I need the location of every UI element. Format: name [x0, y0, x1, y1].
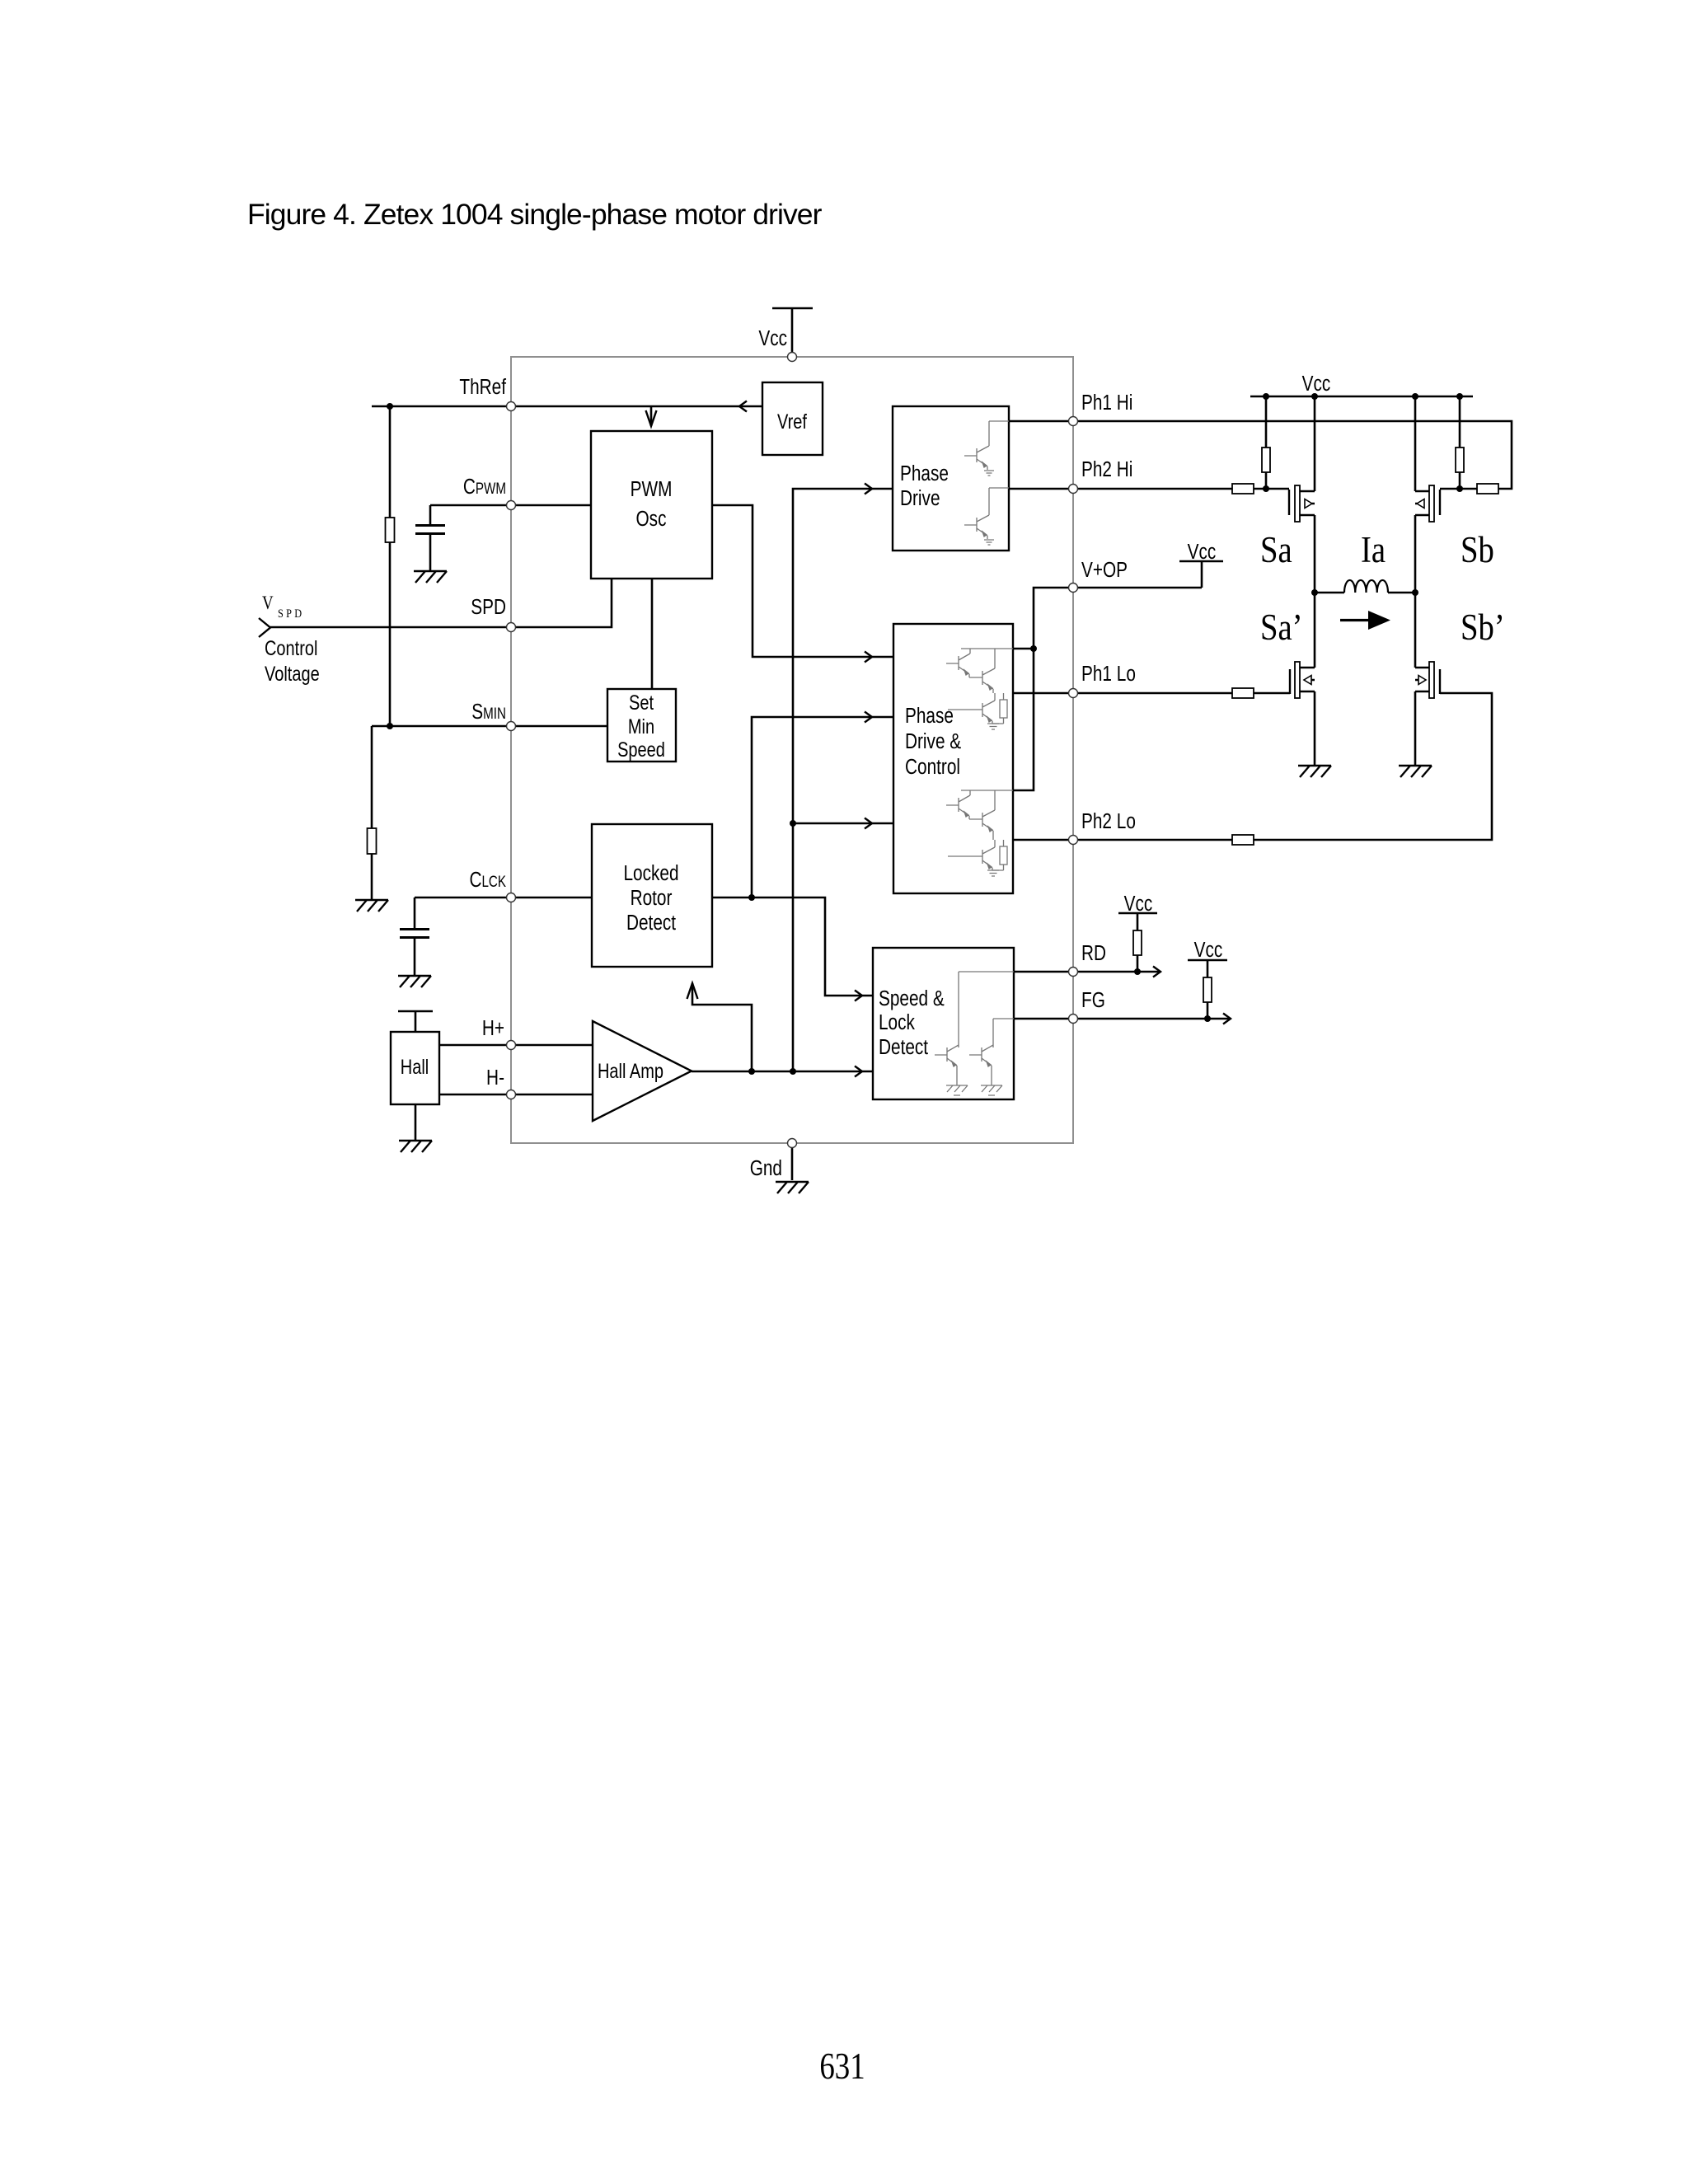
svg-text:V+OP: V+OP: [1081, 558, 1128, 582]
pin circle Vcc (IC top): [788, 353, 797, 362]
svg-text:Sb’: Sb’: [1461, 607, 1505, 648]
wire SMIN left corner down: [371, 726, 373, 828]
wire Sb' gate to Ph2 Lo: [1254, 693, 1492, 840]
ground (Hall): [399, 1141, 432, 1152]
wire RD output line: [1014, 971, 1160, 973]
wire Hall to ground: [415, 1104, 417, 1141]
svg-text:Control: Control: [265, 637, 317, 660]
wire Sa drain leg: [1314, 396, 1316, 593]
wire CLCK line: [415, 897, 592, 899]
wire CPWM corner down to capacitor: [429, 505, 432, 524]
node SMIN junction: [387, 723, 393, 729]
svg-text:CPWM: CPWM: [463, 475, 506, 499]
pin circle H-: [507, 1090, 516, 1099]
arrowhead into Phase Drive & Control input2: [865, 712, 872, 723]
svg-text:FG: FG: [1081, 988, 1105, 1012]
wire Gnd pin to ground: [791, 1147, 794, 1180]
node Vcc rail junctions: [1263, 393, 1269, 400]
transistor Q1 (Phase Drive upper, internal): [964, 421, 1009, 476]
svg-text:Speed: Speed: [617, 738, 665, 762]
svg-text:SPD: SPD: [471, 595, 506, 619]
wire Hall Amp output to Speed & Lock Detect: [692, 1071, 873, 1073]
wire motor node line right: [1388, 592, 1415, 594]
svg-text:Hall: Hall: [401, 1056, 429, 1079]
wire PWM Osc output to Phase Drive & Control input1: [712, 505, 893, 657]
wire CPWM line: [430, 504, 591, 507]
svg-text:Detect: Detect: [879, 1035, 928, 1059]
pin circle SMIN: [507, 722, 516, 731]
arrowhead into ThRef (pointing left): [739, 401, 747, 412]
node Hall output / feedback junction: [748, 1068, 755, 1075]
svg-text:Ia: Ia: [1361, 530, 1386, 570]
arrowhead into Phase Drive & Control input1: [865, 652, 872, 663]
pin circle Gnd (IC bottom): [788, 1139, 797, 1148]
wire Hall signal up to Phase Drive: [793, 489, 893, 1071]
block PWM Osc: [591, 431, 712, 579]
arrowhead into Phase Drive & Control input3: [865, 818, 872, 829]
svg-text:Vcc: Vcc: [1188, 540, 1217, 564]
arrowhead into Speed & Lock Detect input1: [855, 991, 862, 1001]
pin circle CLCK: [507, 893, 516, 902]
wire resistor R2 to ground: [371, 854, 373, 900]
block Phase Drive & Control: [893, 624, 1013, 893]
svg-text:Drive &: Drive &: [905, 729, 961, 753]
node V+OP branch junction: [1030, 645, 1037, 652]
svg-text:Locked: Locked: [623, 861, 678, 885]
wire Sb drain leg: [1414, 396, 1417, 593]
svg-text:Sb: Sb: [1461, 530, 1494, 570]
arrowhead into Phase Drive: [865, 484, 872, 494]
node Hall output / phase junction: [790, 1068, 796, 1075]
power symbol (Hall supply): [398, 1011, 433, 1032]
svg-text:Ph2 Lo: Ph2 Lo: [1081, 809, 1136, 833]
svg-text:631: 631: [819, 2046, 865, 2087]
capacitor C2 (CLCK): [400, 930, 429, 938]
power symbol Vcc (FG pull-up): [1188, 960, 1227, 977]
wire SPD line: [270, 579, 612, 627]
svg-text:Gnd: Gnd: [750, 1156, 782, 1180]
resistor R1 (ThRef-SMIN): [386, 518, 395, 542]
svg-text:Vcc: Vcc: [1124, 892, 1153, 916]
wire V+OP line: [1013, 588, 1202, 790]
arrowhead RD output: [1153, 967, 1160, 977]
svg-text:Drive: Drive: [900, 486, 940, 510]
svg-text:H-: H-: [486, 1066, 504, 1090]
svg-text:Sa’: Sa’: [1260, 607, 1303, 648]
ground (CPWM capacitor): [414, 571, 447, 583]
svg-text:Vcc: Vcc: [1194, 938, 1223, 962]
resistor R7 (Sa' gate series): [1232, 688, 1254, 698]
node motor terminal right: [1412, 589, 1418, 596]
ground (Sa' source): [1298, 766, 1331, 777]
pin circle Ph1 Lo: [1069, 689, 1078, 698]
svg-text:Voltage: Voltage: [265, 663, 320, 686]
transistor Q2 (Phase Drive lower, internal): [964, 488, 1009, 545]
wire resistor R7 to Sa' gate: [1254, 692, 1290, 695]
resistor R2 (SMIN to ground): [368, 828, 377, 854]
svg-text:Phase: Phase: [905, 704, 954, 728]
node Phase Drive & Control input3 junction: [790, 820, 796, 827]
pin circle FG: [1069, 1015, 1078, 1024]
svg-text:ThRef: ThRef: [459, 375, 506, 399]
svg-text:Ph2 Hi: Ph2 Hi: [1081, 457, 1132, 481]
block Phase Drive: [893, 406, 1009, 551]
wire Vcc rail (bridge): [1250, 396, 1473, 398]
svg-text:Speed &: Speed &: [879, 987, 945, 1010]
ground (Gnd pin): [776, 1182, 809, 1193]
wire Ph1 Lo line: [1013, 692, 1232, 695]
arrowhead into Speed & Lock Detect (Hall): [855, 1066, 862, 1077]
svg-text:SMIN: SMIN: [471, 700, 506, 724]
svg-text:Rotor: Rotor: [631, 886, 673, 910]
pin circle Ph2 Hi: [1069, 485, 1078, 494]
svg-text:Osc: Osc: [636, 507, 667, 531]
arrowhead FG output: [1223, 1014, 1231, 1024]
wire SMIN line: [372, 725, 607, 728]
power symbol Vcc (RD pull-up): [1118, 913, 1157, 930]
wire Ph2 Lo line: [1013, 839, 1232, 841]
wire ThRef line: [372, 405, 762, 408]
resistor R9 (RD pull-up): [1133, 930, 1142, 955]
arrowhead into Locked Rotor Detect bottom (pointing up): [687, 983, 698, 999]
pin circle SPD: [507, 623, 516, 632]
op-amp Hall Amp triangle: [593, 1021, 692, 1121]
transistor Q10 (Speed & Lock internal right): [969, 1019, 1014, 1095]
wire capacitor C2 to ground: [414, 939, 416, 976]
pin circle RD: [1069, 968, 1078, 977]
wire CLCK corner down to capacitor: [414, 898, 416, 928]
wire Sa' leg to ground: [1314, 593, 1316, 766]
wire capacitor C1 to ground: [429, 535, 432, 571]
resistor R3 (Sb gate series): [1477, 484, 1498, 494]
wire feedback up to Locked Rotor Detect: [692, 983, 752, 1071]
resistor R8 (Sb' gate series): [1232, 835, 1254, 845]
node motor terminal left: [1311, 589, 1318, 596]
ground (CLCK capacitor): [398, 976, 431, 987]
wire ThRef junction down to resistor: [389, 406, 392, 518]
wire V+OP branch into Phase Drive & Control: [1013, 648, 1034, 650]
wire FG output line: [1014, 1018, 1231, 1020]
svg-text:Ph1 Lo: Ph1 Lo: [1081, 662, 1136, 686]
svg-text:Min: Min: [628, 715, 654, 738]
transistor M4 (N-MOSFET Sb', mirrored): [1415, 662, 1440, 698]
block Vref: [762, 382, 823, 455]
wire H- line: [439, 1094, 593, 1096]
block Set Min Speed: [607, 689, 676, 762]
transistor cluster Q3-Q5 (Phase D&C upper, internal): [946, 649, 1013, 729]
transistor M2 (P-MOSFET Sb, mirrored): [1415, 485, 1440, 522]
svg-text:PWM: PWM: [631, 477, 673, 501]
pin circle ThRef: [507, 402, 516, 411]
svg-text:CLCK: CLCK: [469, 868, 506, 892]
svg-text:Vref: Vref: [777, 410, 808, 434]
wire Locked Rotor output: [712, 898, 873, 996]
node RD pull-up junction: [1134, 968, 1141, 975]
node Sa gate junction: [1263, 485, 1269, 492]
transistor M1 (P-MOSFET Sa): [1289, 485, 1315, 522]
svg-text:Vcc: Vcc: [1302, 372, 1331, 396]
IC U1 boundary box: [511, 357, 1073, 1143]
input V SPD chevron: [259, 618, 270, 637]
pin circle V+OP: [1069, 583, 1078, 593]
node Locked Rotor output junction: [748, 894, 755, 901]
inductor L1 (motor winding): [1344, 580, 1388, 593]
node ThRef junction: [387, 403, 393, 410]
arrow current Ia direction: [1340, 619, 1370, 621]
svg-text:H+: H+: [482, 1016, 504, 1040]
node FG pull-up junction: [1204, 1015, 1211, 1022]
block Locked Rotor Detect: [592, 824, 712, 967]
svg-text:Vcc: Vcc: [758, 326, 787, 350]
svg-text:Sa: Sa: [1260, 530, 1292, 570]
pin circle Ph1 Hi: [1069, 417, 1078, 426]
pin circle CPWM: [507, 501, 516, 510]
transistor cluster Q6-Q8 (Phase D&C lower, internal): [946, 790, 1013, 876]
wire Ph2 Hi line: [1009, 488, 1232, 490]
resistor R4 (Sa gate series): [1232, 484, 1254, 494]
svg-text:Hall Amp: Hall Amp: [598, 1060, 663, 1083]
wire resistor R3 to Sb gate node: [1440, 488, 1477, 490]
block Speed & Lock Detect: [873, 948, 1014, 1099]
resistor R10 (FG pull-up): [1203, 977, 1212, 1002]
wire motor node line left: [1315, 592, 1344, 594]
ground (SMIN resistor): [355, 900, 388, 912]
transistor M3 (N-MOSFET Sa'): [1290, 662, 1315, 698]
wire Sb' leg to ground: [1414, 593, 1417, 766]
power symbol Vcc (top of IC): [772, 308, 813, 353]
wire resistor R1 to SMIN line: [389, 542, 392, 726]
svg-text:Ph1 Hi: Ph1 Hi: [1081, 391, 1132, 415]
wire resistor R4 to Sa gate: [1254, 488, 1289, 490]
pin circle Ph2 Lo: [1069, 836, 1078, 845]
svg-text:Figure 4. Zetex 1004 single-ph: Figure 4. Zetex 1004 single-phase motor …: [247, 198, 823, 231]
svg-text:Lock: Lock: [879, 1010, 915, 1034]
svg-text:V: V: [262, 592, 274, 613]
wire Ph1 Hi line: [1009, 421, 1512, 489]
svg-text:RD: RD: [1081, 941, 1106, 965]
wire PWM Osc bottom to Set Min Speed: [651, 579, 654, 689]
svg-text:Set: Set: [629, 691, 654, 715]
transistor Q9 (Speed & Lock internal left): [935, 972, 1014, 1095]
svg-text:Detect: Detect: [626, 911, 676, 935]
Hall sensor box: [391, 1032, 439, 1104]
arrowhead into PWM Osc top (pointing down): [646, 410, 657, 426]
power symbol Vcc (V+OP): [1179, 561, 1223, 588]
capacitor C1 (CPWM): [415, 526, 445, 534]
wire ThRef down-arrow into PWM Osc: [650, 406, 653, 426]
wire H+ line: [439, 1044, 593, 1047]
ground (Sb' source): [1399, 766, 1432, 777]
svg-text:Control: Control: [905, 755, 960, 779]
wire Locked Rotor output up to Phase Drive & Control input2: [752, 717, 893, 898]
resistor R6 (Sb gate pull-up): [1459, 396, 1461, 448]
node Sb gate junction: [1456, 485, 1463, 492]
svg-text:Phase: Phase: [900, 462, 949, 485]
svg-text:SPD: SPD: [278, 607, 304, 620]
pin circle H+: [507, 1041, 516, 1050]
wire to Phase Drive & Control input3: [793, 823, 893, 825]
resistor R5 (Sa gate pull-up): [1265, 396, 1268, 448]
